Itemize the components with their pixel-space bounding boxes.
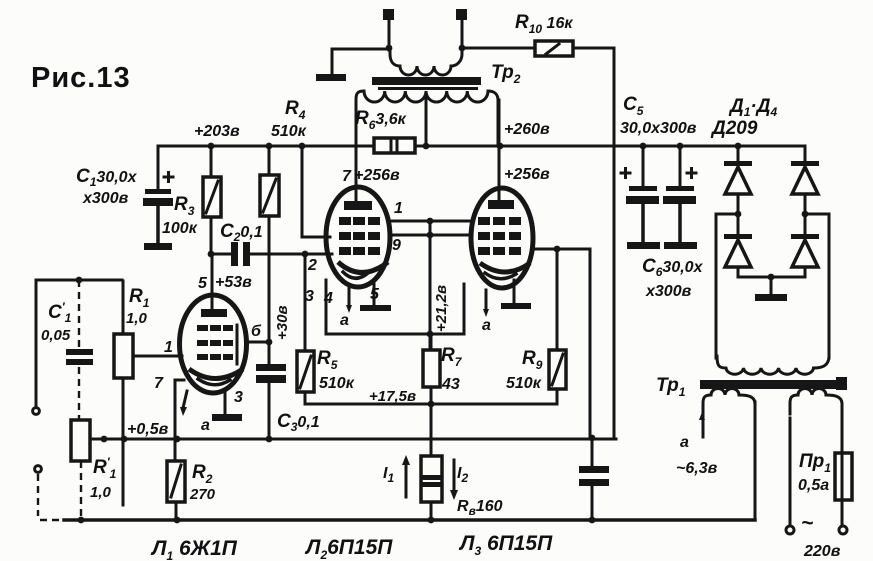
svg-text:а: а xyxy=(201,417,210,434)
svg-text:2: 2 xyxy=(307,257,317,274)
svg-text:5: 5 xyxy=(198,275,208,292)
svg-text:30,0х300в: 30,0х300в xyxy=(620,120,697,137)
svg-text:а: а xyxy=(482,317,491,334)
svg-text:+53в: +53в xyxy=(215,274,252,291)
svg-text:Л26П15П: Л26П15П xyxy=(304,536,393,561)
svg-text:Л3 6П15П: Л3 6П15П xyxy=(458,532,553,558)
svg-text:220в: 220в xyxy=(803,543,841,560)
svg-text:б: б xyxy=(251,323,262,340)
svg-text:9: 9 xyxy=(392,237,401,254)
svg-text:3: 3 xyxy=(305,288,314,305)
svg-text:3: 3 xyxy=(234,389,243,406)
svg-text:43: 43 xyxy=(441,376,460,393)
svg-text:0,5а: 0,5а xyxy=(798,477,829,494)
svg-text:510к: 510к xyxy=(271,123,307,140)
svg-text:Д209: Д209 xyxy=(710,118,758,139)
svg-text:+260в: +260в xyxy=(504,121,550,138)
svg-text:+256в: +256в xyxy=(354,167,400,184)
svg-text:1,0: 1,0 xyxy=(90,484,112,501)
svg-text:+17,5в: +17,5в xyxy=(369,388,416,405)
svg-text:Рис.13: Рис.13 xyxy=(31,62,131,94)
svg-text:4: 4 xyxy=(323,290,333,307)
svg-text:С30,1: С30,1 xyxy=(277,411,320,434)
svg-text:Д1·Д4: Д1·Д4 xyxy=(728,96,777,119)
svg-text:С630,0х: С630,0х xyxy=(642,256,704,279)
svg-text:х300в: х300в xyxy=(645,283,692,300)
svg-text:+30в: +30в xyxy=(274,305,291,340)
svg-text:Л1 6Ж1П: Л1 6Ж1П xyxy=(150,537,238,561)
svg-text:а: а xyxy=(340,312,349,329)
svg-text:510к: 510к xyxy=(319,375,355,392)
svg-text:+203в: +203в xyxy=(194,123,240,140)
svg-text:270: 270 xyxy=(189,486,216,503)
svg-text:~: ~ xyxy=(801,512,813,535)
svg-text:+21,2в: +21,2в xyxy=(433,285,450,332)
svg-text:7: 7 xyxy=(342,168,352,185)
svg-text:0,05: 0,05 xyxy=(41,327,71,344)
svg-text:+0,5в: +0,5в xyxy=(127,421,169,438)
svg-text:С20,1: С20,1 xyxy=(220,221,263,244)
svg-text:7: 7 xyxy=(154,375,164,392)
svg-text:5: 5 xyxy=(370,286,380,303)
svg-text:х300в: х300в xyxy=(82,190,129,207)
svg-text:~6,3в: ~6,3в xyxy=(676,460,718,477)
svg-text:+256в: +256в xyxy=(504,166,550,183)
svg-text:а: а xyxy=(680,434,689,451)
svg-text:С130,0х: С130,0х xyxy=(76,166,138,189)
svg-text:1: 1 xyxy=(394,200,403,217)
svg-text:510к: 510к xyxy=(506,375,542,392)
svg-text:1,0: 1,0 xyxy=(126,310,148,327)
svg-text:1: 1 xyxy=(164,339,173,356)
svg-text:100к: 100к xyxy=(162,220,198,237)
